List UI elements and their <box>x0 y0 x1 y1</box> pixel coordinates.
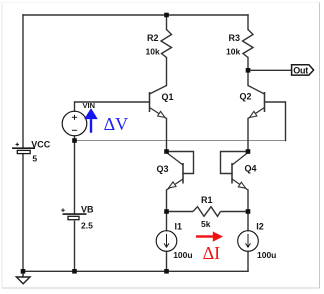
node ground junction <box>21 269 26 274</box>
node I2 / R1 right <box>246 209 251 214</box>
wire bottom ground rail <box>23 270 248 272</box>
wire R2 top stub <box>166 15 168 30</box>
node VIN minus <box>72 138 77 143</box>
wire I1 top stub <box>166 212 168 231</box>
resistor R2 <box>161 30 172 58</box>
wire left rail lower <box>22 154 24 272</box>
transistor Q2 <box>248 86 265 119</box>
wire VIN top to Q1 base <box>75 102 150 111</box>
wire out <box>248 69 292 71</box>
wire R3 bottom stub <box>247 58 249 71</box>
svg-text:100u: 100u <box>173 250 192 260</box>
svg-text:VCC: VCC <box>31 139 51 149</box>
wire Q3 emitter down <box>166 190 168 212</box>
svg-text:Q4: Q4 <box>245 164 257 174</box>
svg-text:5: 5 <box>32 154 37 164</box>
voltage source VCC <box>12 143 35 154</box>
svg-text:Q3: Q3 <box>157 164 169 174</box>
wire VB bottom <box>74 221 76 271</box>
wire VIN bottom stub <box>74 136 76 141</box>
svg-text:Out: Out <box>293 65 308 75</box>
transistor Q4 <box>232 153 248 191</box>
node VCC rail / R2 junction <box>164 13 169 18</box>
node I1 bottom rail <box>164 269 169 274</box>
wire R2 bottom to Q1 collector <box>166 58 168 86</box>
node Q1 emitter / Q3 collector <box>164 149 169 154</box>
wire I2 top stub <box>247 212 249 231</box>
wire top rail VCC <box>23 14 248 16</box>
svg-text:I2: I2 <box>256 222 264 232</box>
wire Q2 base loop <box>265 102 286 141</box>
transistor Q1 <box>150 86 167 119</box>
svg-text:R1: R1 <box>201 195 213 205</box>
transistor Q3 <box>167 153 184 191</box>
svg-text:Q1: Q1 <box>162 92 174 102</box>
node below R3 / Out <box>246 68 251 73</box>
wire Q2 emitter to node <box>247 119 249 152</box>
svg-text:10k: 10k <box>226 47 240 57</box>
annotation arrow dV (blue) <box>84 108 98 133</box>
current source I2 <box>238 231 259 252</box>
wire Q2 collector stub <box>247 70 249 85</box>
svg-text:R3: R3 <box>229 33 241 43</box>
svg-text:10k: 10k <box>146 47 160 57</box>
wire Q4 base loop <box>221 152 249 174</box>
wire Q1 emitter to node <box>166 119 168 152</box>
annotation arrow dI (red) <box>196 232 223 242</box>
svg-text:100u: 100u <box>257 250 276 260</box>
svg-text:VIN: VIN <box>83 101 96 110</box>
svg-text:5k: 5k <box>201 219 211 229</box>
svg-text:VB: VB <box>81 204 94 214</box>
resistor R1 <box>167 207 249 217</box>
node I1 / R1 left <box>164 209 169 214</box>
svg-text:ΔV: ΔV <box>104 114 129 134</box>
resistor R3 <box>243 30 254 58</box>
node VB bottom rail <box>72 269 77 274</box>
wire I2 bottom stub <box>247 251 249 271</box>
wire Q3 base loop <box>167 152 194 174</box>
wire left rail upper <box>22 15 24 148</box>
svg-text:R2: R2 <box>147 33 159 43</box>
wire mid rail VIN- to Q2 base loop <box>75 140 286 142</box>
wire Q4 emitter down <box>247 190 249 212</box>
ground <box>16 271 30 284</box>
voltage source VB <box>61 208 86 219</box>
svg-text:ΔI: ΔI <box>203 243 221 263</box>
wire R3 top stub <box>247 15 249 30</box>
svg-text:Q2: Q2 <box>240 92 252 102</box>
node Q2 emitter / Q4 collector <box>246 149 251 154</box>
port Out <box>292 65 314 76</box>
svg-text:2.5: 2.5 <box>81 221 93 231</box>
wire VB top <box>74 141 76 215</box>
voltage source VIN <box>62 111 87 136</box>
wire I1 bottom stub <box>166 251 168 271</box>
current source I1 <box>156 231 177 252</box>
svg-text:I1: I1 <box>175 222 183 232</box>
